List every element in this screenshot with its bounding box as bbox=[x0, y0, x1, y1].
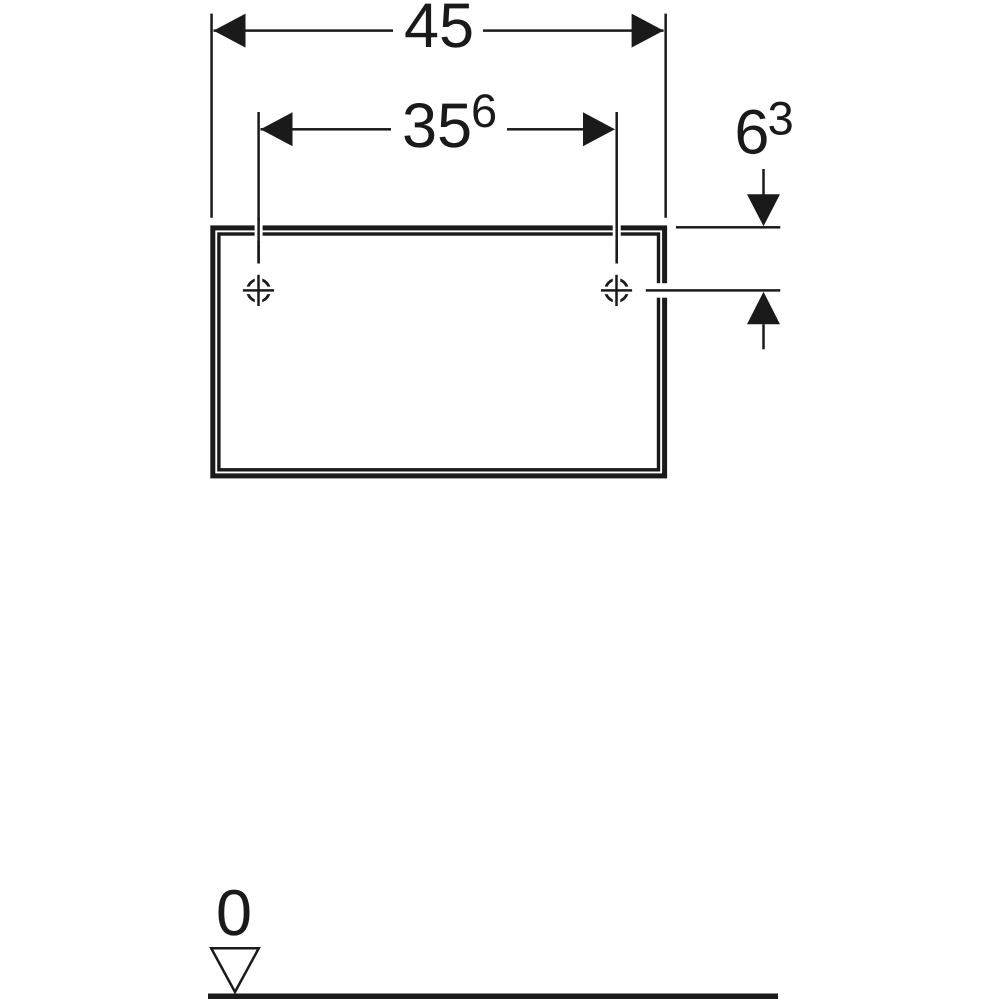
arrowhead 35.6 left bbox=[261, 112, 293, 146]
extension line left (35.6 dim, runs to drill hole) bbox=[257, 112, 260, 264]
arrowhead 45 right bbox=[632, 14, 664, 48]
label superscript 3 (6.3 dim) bbox=[769, 102, 791, 135]
drill hole left: cross lines bbox=[257, 275, 260, 306]
drill hole left: white cross halo bbox=[242, 273, 276, 307]
6.3 dim up-arrow stem bbox=[762, 324, 765, 349]
drill hole right: white cross halo bbox=[600, 273, 634, 307]
dimension line 45 right segment bbox=[483, 29, 664, 32]
label 45 bbox=[405, 4, 471, 48]
dimension line 35.6 right segment bbox=[507, 128, 583, 131]
drill hole left: circle bbox=[248, 279, 270, 301]
extension line right (35.6 dim, runs to drill hole) bbox=[615, 112, 618, 264]
redraw left 35.6 extension line over halo bbox=[257, 218, 260, 264]
datum triangle bbox=[211, 948, 259, 992]
redraw right 35.6 extension line over halo bbox=[615, 218, 618, 264]
drill hole level reference line bbox=[646, 289, 781, 292]
6.3 dim down-arrow stem bbox=[762, 169, 765, 197]
label 0 (datum) bbox=[218, 890, 249, 936]
drill hole right: cross lines bbox=[615, 275, 618, 306]
cabinet outline outer rectangle bbox=[213, 228, 665, 476]
extension line right (45 dim) bbox=[664, 14, 667, 218]
6.3 dim up arrowhead bbox=[747, 292, 780, 325]
dimension line 45 left segment bbox=[214, 29, 394, 32]
cabinet top level reference line bbox=[676, 226, 780, 229]
label superscript 6 bbox=[473, 94, 495, 127]
6.3 dim down arrowhead bbox=[747, 194, 780, 226]
label 35 bbox=[404, 103, 469, 148]
cabinet outline inner rectangle bbox=[219, 234, 659, 470]
white halo where left 35.6 extension line crosses cabinet top edge bbox=[255, 220, 263, 241]
dimension line 35.6 left segment bbox=[261, 128, 392, 131]
floor line bbox=[208, 994, 778, 1000]
white halo where drill hole level line crosses cabinet right edge bbox=[656, 283, 670, 298]
white halo where right 35.6 extension line crosses cabinet top edge bbox=[613, 220, 621, 241]
arrowhead 45 left bbox=[214, 14, 246, 48]
extension line left (45 dim) bbox=[210, 14, 213, 218]
label 6 (6.3 dim) bbox=[738, 110, 767, 155]
arrowhead 35.6 right bbox=[583, 112, 615, 146]
drill hole right: circle bbox=[606, 279, 628, 301]
